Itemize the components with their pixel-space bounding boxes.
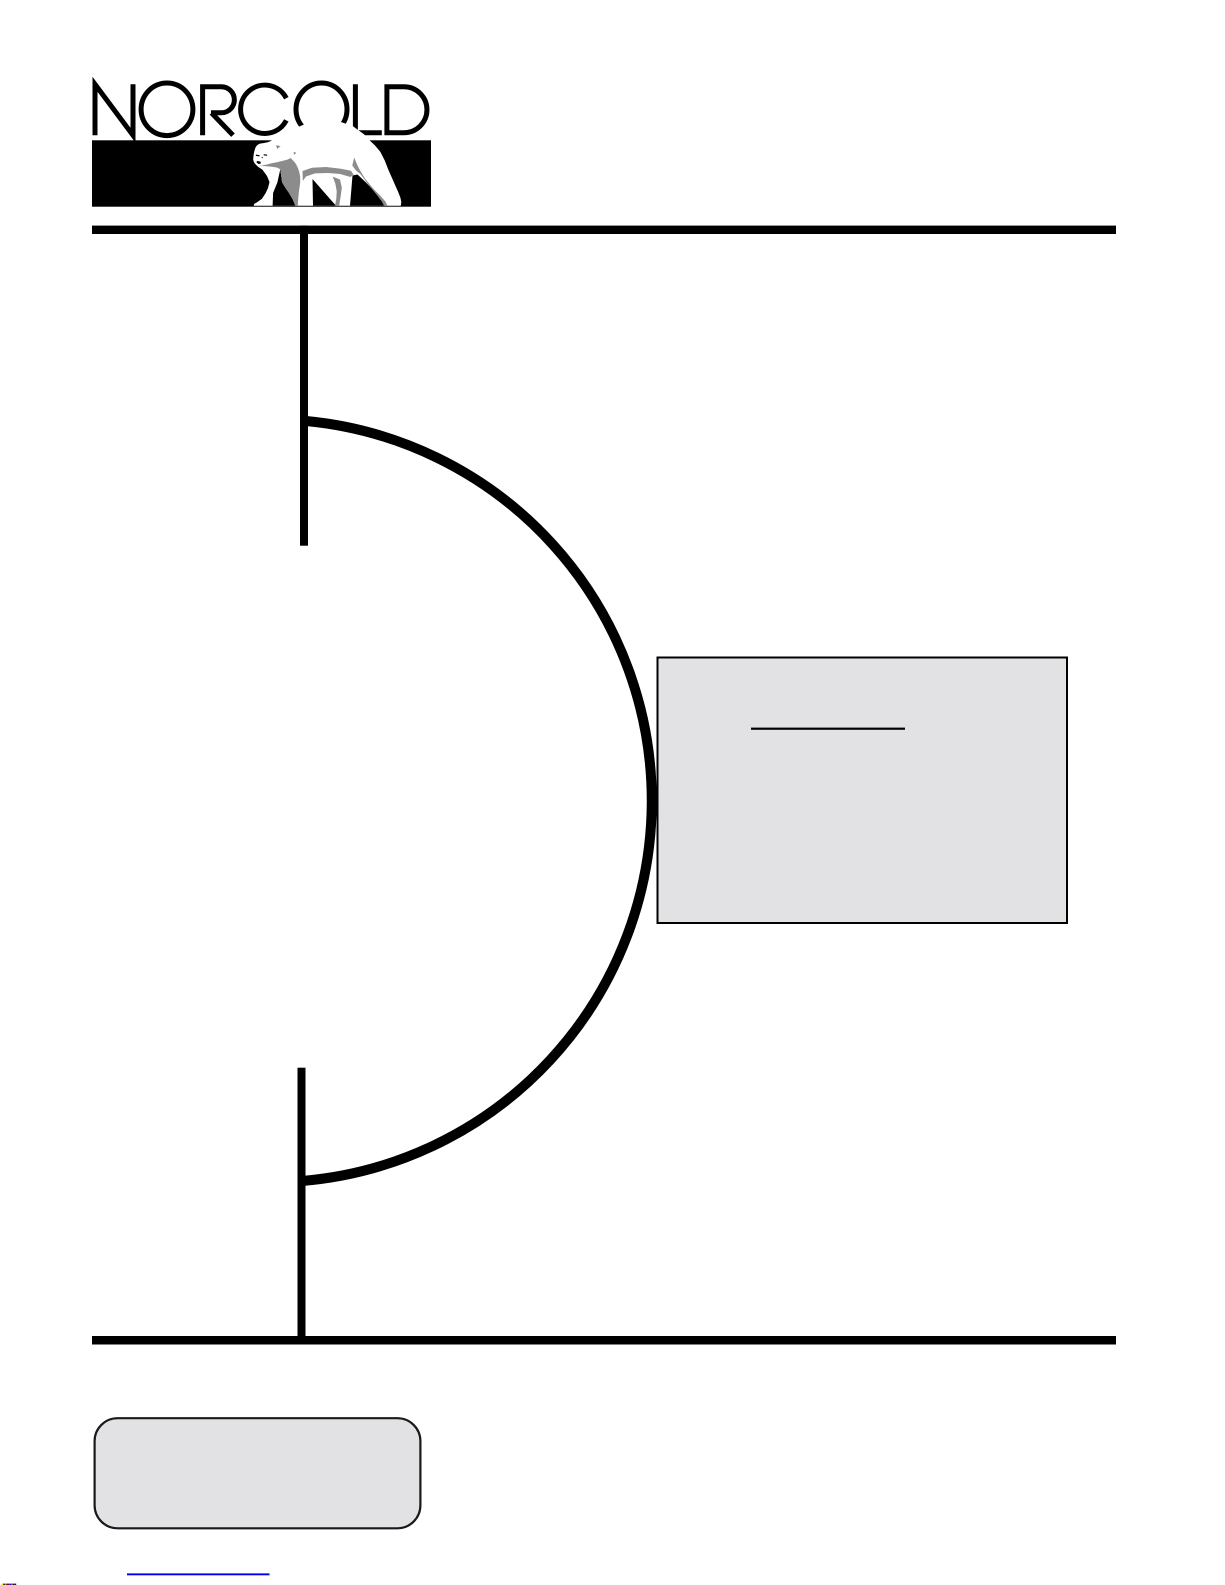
bear gray belly band (303, 167, 354, 181)
NORCOLD logo letter O2 (296, 83, 347, 136)
large semicircular arc (302, 421, 652, 1181)
lower vertical line (298, 1068, 306, 1344)
logo black banner rectangle (92, 140, 431, 206)
bear eye left dash (256, 155, 260, 157)
bear gray leg3 strip (333, 177, 342, 206)
NORCOLD logo letter C (241, 85, 287, 133)
blue underline link mark (127, 1573, 270, 1575)
tiny color strip bottom-left corner (2, 1584, 17, 1585)
bear eye right dash (264, 154, 268, 155)
short rule inside gray panel (751, 728, 905, 730)
gray panel (note box) (658, 658, 1068, 924)
NORCOLD logo letter R (203, 87, 235, 136)
NORCOLD logo letter D (387, 84, 427, 135)
bear nose dot (262, 157, 263, 158)
bear gray hip spike and rear leg band (352, 158, 387, 206)
bear leg gap 1-2 (black wedge) (273, 169, 296, 206)
bear gray back notch (294, 152, 297, 155)
top horizontal rule (92, 226, 1116, 234)
bear gray ear notch (276, 145, 281, 149)
NORCOLD logo letter O (141, 83, 193, 136)
NORCOLD logo letter N (95, 84, 133, 135)
bear mouth mark (257, 161, 261, 164)
bear gray neck band with jaw strip (258, 158, 300, 206)
polar bear white silhouette (253, 120, 401, 206)
NORCOLD logo letter L (353, 84, 382, 133)
rounded gray box bottom left (95, 1418, 421, 1528)
bear leg gap 3-4 (black) (350, 175, 385, 206)
upper vertical line (300, 226, 308, 546)
bear leg gap 2-3 (black) (313, 179, 337, 206)
bottom horizontal rule (92, 1336, 1116, 1345)
